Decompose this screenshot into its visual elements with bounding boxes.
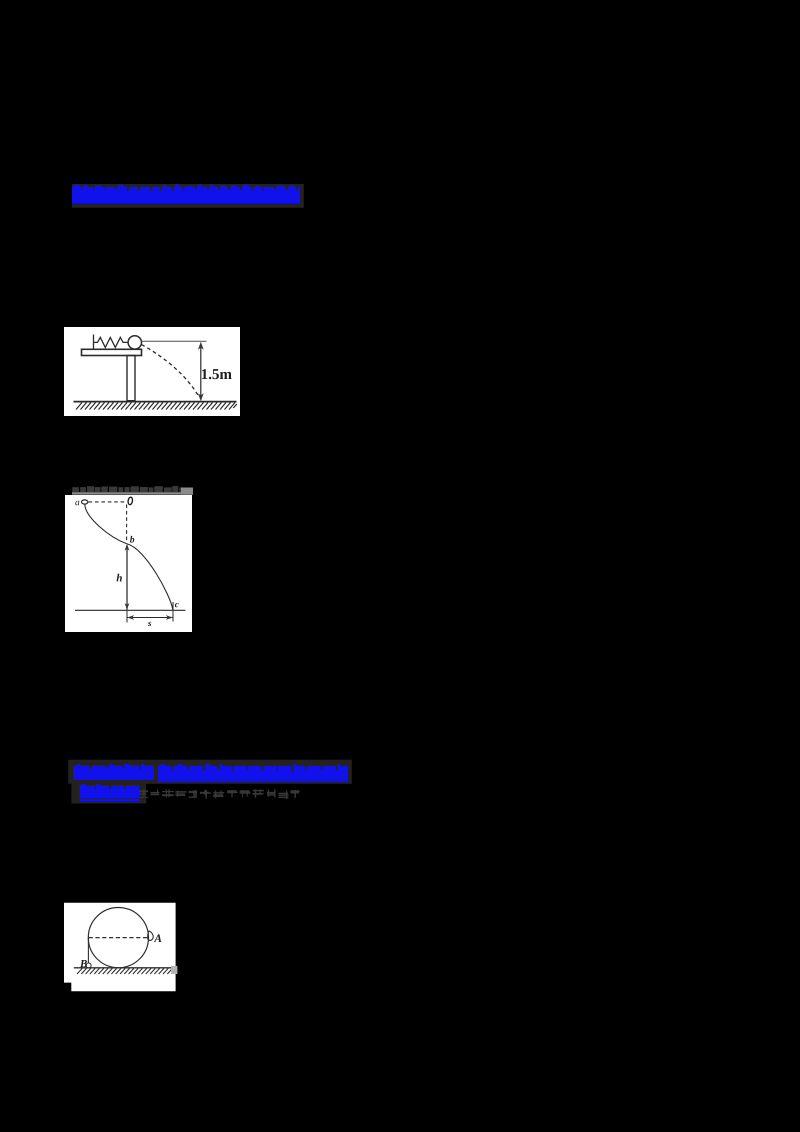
ball	[128, 336, 141, 349]
label O	[128, 497, 134, 505]
ground line fig1	[74, 401, 237, 403]
teardrop loop at A	[148, 931, 154, 940]
s arrow heads	[127, 615, 134, 620]
heading 2 line2 faint gray text	[139, 789, 300, 799]
cropped gray caption fragments	[72, 486, 193, 495]
label 1.5m	[202, 369, 232, 379]
dashed trajectory	[142, 345, 199, 397]
heading 1 blue text band	[72, 184, 300, 203]
figure 2: swing and projectile curve	[65, 495, 192, 632]
wall post	[93, 335, 95, 350]
ground line fig3	[74, 967, 171, 969]
heading link 2	[66, 756, 406, 808]
reference line from ball to arrow	[142, 340, 207, 342]
label a	[75, 501, 79, 506]
heading 2 line1 left blue text	[73, 764, 154, 780]
label A	[154, 934, 162, 942]
dashed diameter	[89, 937, 149, 939]
figure 2 white panel	[65, 495, 192, 632]
ground hatching fig3	[77, 968, 171, 974]
heading 2 line2 gray highlight box	[71, 783, 146, 803]
tail line below c	[172, 602, 174, 622]
figure 3: ball on circle	[64, 902, 178, 992]
small ball at B	[86, 963, 91, 968]
1.5m vertical double arrow	[200, 344, 202, 400]
ball a	[82, 500, 88, 504]
label h	[117, 574, 122, 582]
label b	[130, 536, 134, 543]
smudge strip above figure 2	[72, 486, 193, 495]
heading 1 gray highlight box	[72, 184, 304, 208]
heading link 1 (blue blob text row)	[70, 183, 310, 209]
figure 3 white panel with notched corner	[64, 903, 176, 992]
heading 2 line1 underlined blue link	[158, 764, 349, 782]
string from left diameter end down to B	[87, 938, 89, 964]
curve a to b	[85, 504, 128, 544]
figure 1: spring launcher on table	[64, 327, 240, 416]
h arrow heads	[125, 544, 130, 551]
big circle	[88, 908, 148, 968]
table leg	[127, 356, 135, 401]
s arrow line	[127, 617, 173, 619]
spring	[94, 337, 129, 347]
table top	[82, 349, 142, 355]
figure 1 white panel	[64, 327, 240, 416]
label s	[148, 622, 151, 626]
label B	[80, 960, 87, 967]
curve b to c	[128, 544, 173, 610]
label c	[175, 603, 179, 607]
ground line fig2	[75, 609, 186, 611]
arrowheads of 1.5m arrow	[198, 342, 204, 350]
h line extension below ground	[126, 610, 128, 623]
heading 2 line2 underlined blue link	[80, 784, 139, 802]
heading 2 line1 gray highlight box	[68, 760, 352, 784]
ground hatching fig1	[76, 403, 237, 410]
gray patch right of hatching	[171, 966, 177, 974]
dashed line O to b	[126, 505, 128, 542]
dashed line a to O	[89, 501, 127, 503]
h arrow line	[126, 546, 128, 610]
